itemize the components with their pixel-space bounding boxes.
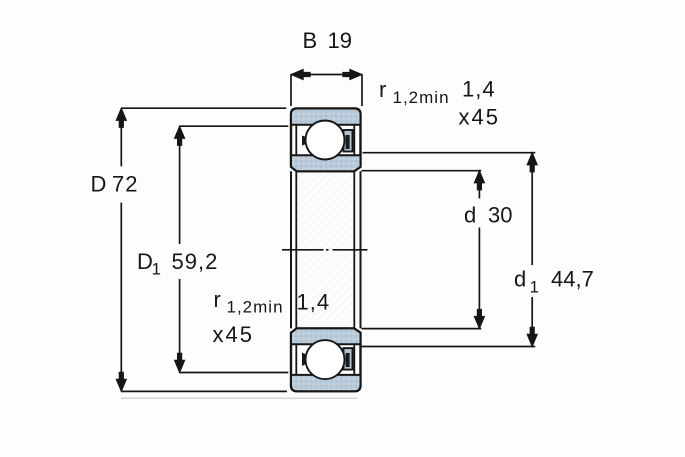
ball top [306, 121, 345, 160]
cavity side lines bottom block [296, 344, 354, 375]
ball bottom [306, 340, 345, 379]
svg-text:72: 72 [112, 172, 138, 197]
cage section right top block [344, 130, 353, 152]
svg-text:B: B [303, 28, 318, 53]
svg-text:D: D [91, 172, 107, 197]
chamfer annotation top right r 1,2min 1,4 x45 [379, 77, 500, 130]
bearing top block body [291, 109, 361, 172]
svg-text:59,2: 59,2 [172, 249, 219, 274]
svg-text:D: D [137, 249, 153, 274]
bore silhouette lines [291, 171, 361, 328]
cage rivet mark left top [302, 136, 306, 146]
bearing bore (see-through hatch) [292, 172, 360, 328]
svg-text:44,7: 44,7 [551, 267, 594, 292]
svg-text:1,2min: 1,2min [393, 88, 450, 107]
svg-text:19: 19 [328, 28, 352, 53]
svg-text:1,4: 1,4 [462, 77, 496, 102]
svg-text:x45: x45 [459, 105, 500, 130]
svg-text:d: d [464, 203, 476, 228]
svg-text:1: 1 [152, 260, 162, 279]
cage rivet mark left bottom [302, 353, 306, 367]
inner ring top section [291, 155, 361, 171]
cavity side lines top block [296, 125, 354, 156]
svg-text:r: r [214, 287, 221, 312]
centerline axis [282, 249, 368, 251]
svg-text:r: r [379, 77, 386, 102]
ghost artifact line bottom [121, 397, 357, 399]
svg-text:1,2min: 1,2min [227, 298, 284, 317]
dimension D 72 [91, 108, 288, 391]
dimension D1 59,2 [137, 126, 288, 372]
svg-text:1,4: 1,4 [297, 290, 331, 315]
chamfer annotation bottom left r 1,2min 1,4 x45 [213, 287, 331, 347]
dimension B 19 [291, 28, 362, 106]
dimension d1 44,7 [362, 153, 594, 347]
svg-text:1: 1 [530, 278, 540, 297]
svg-text:d: d [514, 267, 526, 292]
cage section right bottom block [344, 348, 353, 370]
dimension d 30 [362, 171, 513, 329]
outer ring bottom section [291, 375, 361, 391]
svg-text:30: 30 [488, 203, 512, 228]
svg-text:x45: x45 [213, 322, 254, 347]
outer ring top section [291, 109, 361, 125]
inner ring bottom section [291, 328, 361, 344]
bearing bottom block body [291, 328, 361, 391]
